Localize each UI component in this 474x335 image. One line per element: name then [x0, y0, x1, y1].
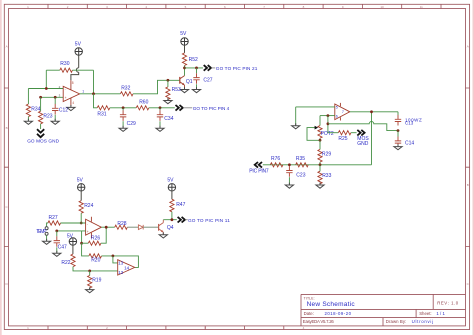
capacitor C12	[52, 97, 68, 121]
wire 5V to R24	[80, 191, 82, 201]
node junction	[45, 87, 48, 90]
resistor R30	[60, 61, 73, 72]
resistor R27	[48, 215, 61, 225]
node junction collector	[171, 218, 174, 221]
resistor R26	[82, 227, 107, 245]
resistor R19	[88, 271, 102, 290]
frame ticks bottom	[48, 326, 284, 330]
resistor R47	[170, 199, 186, 212]
svg-text:5V: 5V	[75, 42, 82, 48]
wire jog into op-amp V+ pin	[71, 72, 79, 80]
port GO TO PIC PIN 11	[178, 217, 231, 223]
node junction R33	[319, 163, 322, 166]
canvas edge line right	[473, 0, 474, 335]
node junction	[54, 96, 57, 99]
svg-text:C34: C34	[164, 116, 173, 122]
port GO TO PIC PIN 21	[204, 65, 258, 71]
node junction C13/C14	[397, 129, 400, 132]
node junction	[112, 255, 115, 258]
svg-text:GO TO PIC PIN 11: GO TO PIC PIN 11	[188, 218, 230, 223]
wire to C29 node	[110, 107, 136, 109]
resistor R35	[296, 156, 309, 167]
capacitor C14	[395, 131, 415, 148]
wire R28 to diode	[127, 226, 138, 228]
svg-text:11: 11	[420, 5, 423, 9]
svg-text:REV: 1.0: REV: 1.0	[437, 301, 459, 306]
power flag 5V (R47)	[167, 178, 175, 191]
svg-text:8: 8	[72, 81, 74, 85]
resistor R33	[318, 165, 332, 185]
svg-text:5V: 5V	[167, 178, 174, 184]
resistor R22	[61, 254, 75, 267]
op-amp U1 V- pin	[70, 98, 72, 106]
capacitor C34	[157, 108, 174, 128]
svg-text:GO TO PIC PIN 21: GO TO PIC PIN 21	[216, 66, 258, 71]
resistor R20	[89, 254, 102, 264]
wire R32 to Q1 base column	[133, 80, 180, 94]
svg-text:R20: R20	[91, 258, 100, 264]
node junction	[39, 96, 42, 99]
svg-text:GND: GND	[357, 141, 369, 147]
resistor R76	[270, 156, 283, 167]
power flag 5V (R24)	[77, 178, 85, 191]
capacitor C27	[193, 68, 212, 89]
node junction output	[105, 226, 108, 229]
resistor R28	[115, 221, 128, 229]
ground under op-amp	[67, 105, 75, 111]
wire R24 to +input	[80, 213, 82, 223]
node junction	[159, 106, 162, 109]
wire 5V to R47	[171, 191, 173, 199]
ground under Q1	[180, 87, 188, 93]
wire input row bottom	[41, 96, 64, 98]
svg-text:C23: C23	[296, 172, 305, 178]
svg-text:A: A	[467, 45, 469, 49]
capacitor C29	[120, 108, 136, 128]
port GO TO PIC PIN 4	[176, 105, 230, 111]
op-amp U2B	[118, 260, 135, 275]
svg-text:R52: R52	[189, 57, 198, 63]
svg-text:Q4: Q4	[167, 225, 174, 231]
ground at U3 +input	[292, 123, 300, 129]
wire R22 to bottom row	[73, 267, 118, 271]
svg-text:R30: R30	[60, 61, 69, 67]
svg-text:12: 12	[118, 270, 124, 275]
wire R27 to op-amp	[61, 222, 86, 224]
svg-text:2018-09-20: 2018-09-20	[325, 311, 352, 316]
wire -input row	[57, 230, 86, 232]
svg-text:5: 5	[336, 105, 338, 109]
resistor R53	[166, 80, 181, 100]
svg-text:R29: R29	[322, 151, 331, 157]
svg-text:5V: 5V	[77, 178, 84, 184]
svg-text:+: +	[87, 230, 89, 234]
node junction feedback row	[327, 122, 330, 125]
resistor R34	[26, 89, 40, 122]
op-amp U2A	[86, 217, 102, 239]
svg-text:Sheet:: Sheet:	[419, 311, 431, 316]
wire R25 to port	[351, 132, 357, 134]
svg-text:R22: R22	[61, 260, 70, 266]
wire R47 to collector row	[163, 212, 177, 220]
wire feedback column	[327, 116, 329, 133]
svg-text:New Schematic: New Schematic	[307, 301, 356, 308]
wire output row	[80, 93, 121, 95]
ground under C47	[53, 251, 61, 257]
svg-text:C47: C47	[58, 244, 67, 250]
svg-text:5V: 5V	[180, 31, 187, 37]
ground under R53	[164, 98, 172, 104]
node junction collector	[183, 67, 186, 70]
svg-text:R25: R25	[338, 136, 347, 142]
resistor R31	[97, 106, 110, 118]
power flag 5V (U1)	[75, 42, 83, 56]
frame ticks left	[4, 88, 8, 247]
transistor Q4	[159, 220, 174, 235]
wire +input row	[296, 106, 335, 108]
transistor Q1	[180, 76, 193, 90]
node junction C23	[288, 163, 291, 166]
svg-text:POT2: POT2	[321, 131, 334, 137]
wire diode to Q4 base	[143, 226, 158, 228]
svg-text:C13: C13	[405, 121, 414, 126]
power flag 5V (R22)	[67, 234, 77, 246]
port GO MOS GND	[27, 129, 59, 143]
svg-text:R27: R27	[49, 215, 58, 221]
node junction C27	[195, 67, 198, 70]
wire right column with hop	[371, 112, 373, 165]
ground under Q4	[159, 232, 167, 238]
node junction	[370, 110, 373, 113]
wire input row top	[28, 88, 63, 90]
node junction POT2 bottom	[319, 139, 322, 142]
resistor R60	[136, 100, 149, 110]
node junction base	[167, 79, 170, 82]
node junction output	[92, 92, 95, 95]
ground under R19	[86, 287, 94, 293]
svg-text:GO TO PIC PIN 4: GO TO PIC PIN 4	[193, 106, 230, 111]
svg-text:TEMP: TEMP	[36, 229, 47, 235]
svg-text:7: 7	[342, 110, 344, 114]
svg-text:A: A	[6, 45, 8, 49]
node junction R26	[80, 242, 83, 245]
ground under R33	[316, 183, 324, 189]
wire output row	[350, 111, 398, 113]
resistor R23	[39, 97, 53, 129]
wire +input to ground	[295, 107, 297, 126]
resistor R29	[318, 140, 331, 165]
wire left column to inverting input	[45, 70, 47, 88]
node junction	[327, 114, 330, 117]
diode D1	[138, 225, 143, 230]
wire R60 to port	[149, 107, 175, 109]
wire feedback row with hop	[328, 122, 398, 131]
op-amp U1 V+ pin	[70, 80, 72, 89]
svg-text:R26: R26	[91, 235, 100, 241]
wire R27 left to TEMP	[47, 223, 48, 227]
power flag 5V (Q1)	[180, 31, 188, 45]
wire collector node right	[185, 67, 204, 69]
svg-text:C14: C14	[405, 140, 414, 146]
wire R52 to collector node	[184, 66, 186, 76]
ground under C29	[119, 126, 127, 132]
svg-text:R28: R28	[117, 221, 126, 227]
node junction	[80, 222, 83, 225]
connector TEMP	[36, 227, 48, 236]
svg-text:1/1: 1/1	[436, 311, 445, 316]
svg-text:R32: R32	[121, 86, 130, 92]
svg-text:R35: R35	[296, 156, 305, 162]
svg-text:R24: R24	[84, 203, 93, 209]
svg-text:4: 4	[72, 101, 74, 105]
svg-text:R19: R19	[92, 278, 101, 284]
svg-text:C27: C27	[203, 78, 212, 84]
svg-text:14: 14	[124, 266, 130, 271]
wire output row	[101, 226, 114, 228]
op-amp U1	[59, 85, 85, 102]
node junction R19	[88, 270, 91, 273]
svg-text:Q1: Q1	[186, 79, 193, 85]
canvas edge line left	[0, 0, 1, 335]
svg-text:10: 10	[380, 5, 384, 9]
svg-text:C12: C12	[59, 108, 68, 114]
resistor R25	[338, 131, 351, 143]
svg-text:R33: R33	[322, 173, 331, 179]
svg-text:R53: R53	[172, 87, 181, 93]
op-amp U3	[335, 103, 350, 121]
capacitor C13	[395, 112, 422, 126]
svg-text:R76: R76	[271, 156, 280, 162]
resistor R24	[79, 201, 93, 214]
wire hop over feedback	[76, 68, 78, 73]
svg-text:Drawn By:: Drawn By:	[386, 319, 407, 324]
svg-text:R47: R47	[176, 202, 185, 208]
svg-text:-: -	[87, 222, 88, 226]
svg-text:Date:: Date:	[304, 311, 314, 316]
port PIC PIN7	[249, 162, 269, 175]
capacitor C23	[286, 166, 305, 185]
ground under C27	[192, 87, 200, 93]
wire R31 branch down	[94, 94, 98, 108]
ground under C14	[394, 144, 402, 150]
svg-text:PIC PIN7: PIC PIN7	[249, 169, 269, 175]
ground under C12	[51, 119, 59, 125]
wire R25 row	[328, 132, 338, 134]
ground under TEMP	[43, 239, 51, 245]
svg-text:B: B	[6, 126, 8, 130]
resistor R52	[182, 53, 198, 66]
node junction	[122, 106, 125, 109]
resistor R32	[120, 86, 133, 96]
frame ticks right	[466, 88, 470, 247]
svg-text:-: -	[65, 87, 66, 91]
frame ticks top	[48, 4, 441, 8]
wire R26 node to R20 row	[82, 243, 89, 256]
svg-text:R23: R23	[43, 113, 52, 119]
svg-text:6: 6	[336, 114, 338, 118]
svg-text:5V: 5V	[67, 234, 74, 240]
wire 5V to R22	[72, 245, 74, 254]
svg-text:B: B	[467, 183, 469, 187]
wire -input to POT2 top	[319, 116, 321, 126]
wire feedback row	[46, 70, 93, 94]
svg-text:Ultronvij: Ultronvij	[412, 319, 434, 324]
svg-text:GO MOS GND: GO MOS GND	[27, 139, 59, 144]
wire TEMP to ground	[46, 235, 48, 241]
node junction C47	[55, 230, 58, 233]
potentiometer POT2	[307, 126, 334, 141]
svg-text:TITLE:: TITLE:	[304, 296, 315, 300]
port MOS GND	[357, 130, 369, 147]
wire -input to R26 column	[81, 231, 83, 243]
svg-text:R60: R60	[139, 100, 148, 106]
ground under R34	[24, 119, 32, 125]
wire bottom row	[263, 164, 372, 166]
svg-text:13: 13	[118, 260, 124, 265]
wire R20 to op-amp column	[102, 256, 139, 268]
ground under C34	[156, 126, 164, 132]
wire 5V to R52	[184, 45, 186, 53]
ground under C23	[285, 183, 293, 189]
capacitor C47	[54, 231, 67, 253]
svg-text:C29: C29	[127, 121, 136, 127]
svg-text:R31: R31	[97, 111, 106, 117]
wire 5V down to hop	[78, 55, 80, 67]
svg-text:+: +	[65, 96, 67, 100]
wire to pin 13	[113, 256, 118, 263]
svg-text:1: 1	[82, 89, 84, 93]
wire -input row	[320, 115, 335, 117]
svg-text:EasyEDA V5.7.26: EasyEDA V5.7.26	[303, 319, 335, 324]
